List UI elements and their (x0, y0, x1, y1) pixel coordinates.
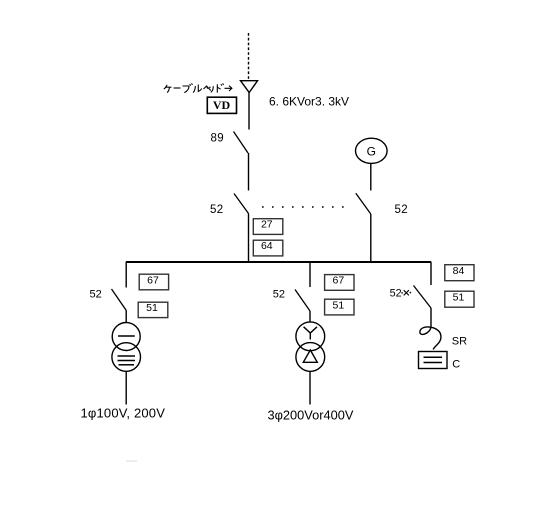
svg-text:27: 27 (261, 219, 273, 231)
svg-text:51: 51 (333, 299, 345, 311)
svg-text:52: 52 (90, 288, 102, 300)
svg-text:52: 52 (273, 288, 285, 300)
svg-text:SR: SR (452, 336, 467, 348)
svg-text:G: G (367, 145, 376, 159)
svg-text:67: 67 (147, 274, 159, 286)
svg-text:6. 6KVor3. 3kV: 6. 6KVor3. 3kV (269, 94, 349, 108)
svg-text:84: 84 (453, 265, 465, 277)
svg-text:52: 52 (395, 204, 409, 216)
svg-text:51: 51 (146, 302, 158, 314)
svg-text:52: 52 (390, 287, 402, 299)
svg-text:51: 51 (453, 291, 465, 303)
svg-text:67: 67 (333, 275, 345, 287)
svg-text:C: C (452, 359, 460, 371)
svg-text:3φ200Vor400V: 3φ200Vor400V (268, 408, 354, 423)
svg-text:89: 89 (211, 132, 225, 144)
svg-text:64: 64 (261, 240, 273, 252)
svg-text:1φ100V, 200V: 1φ100V, 200V (81, 406, 166, 421)
svg-text:52: 52 (210, 204, 224, 216)
svg-text:VD: VD (213, 98, 231, 112)
